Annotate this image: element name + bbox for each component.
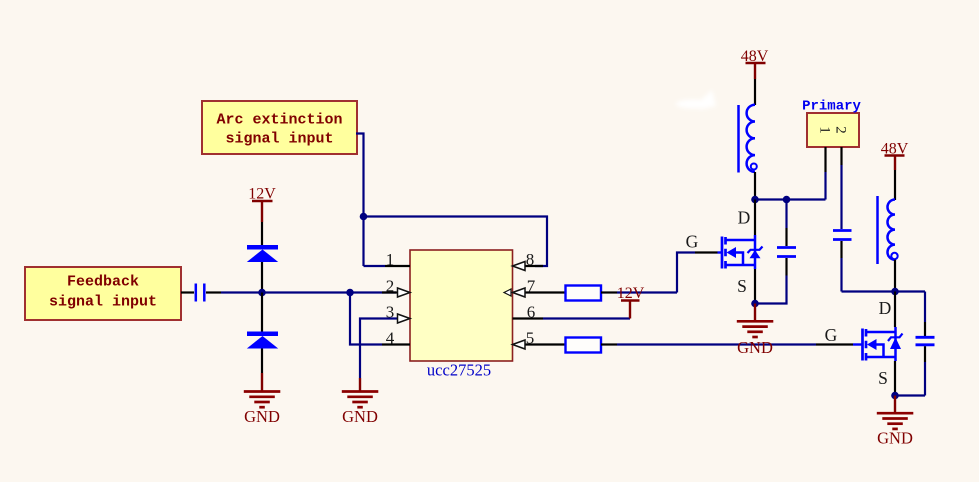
resistor R2 (566, 338, 602, 353)
12V power symbol 1 (248, 186, 276, 223)
wire Q2 drain rail (894, 292, 896, 328)
ground GND4 (Q2 source) (877, 396, 914, 448)
svg-text:3: 3 (386, 303, 395, 322)
wire pin2 node down to pin 4 (350, 293, 382, 345)
pin 1 of Primary (824, 147, 826, 172)
junction dot pin2 node (346, 289, 354, 297)
pin 5 stub (525, 343, 566, 345)
wire gate lead Q2 (816, 343, 853, 345)
junction dot source node Q1 (751, 300, 759, 308)
svg-text:GND: GND (737, 338, 773, 357)
junction dot source node Q2 (891, 392, 899, 400)
wire 48V to transformer T1 (754, 79, 756, 105)
wire gate lead Q1 (695, 251, 718, 253)
svg-text:1: 1 (817, 126, 833, 134)
wire 12V to diode D1 (261, 222, 263, 246)
capacitor C2 (on Primary pin 2) (833, 165, 852, 292)
pin 7 stub (525, 291, 566, 293)
svg-text:Arc extinction: Arc extinction (216, 112, 342, 129)
white smudge artifact (676, 90, 716, 109)
svg-text:6: 6 (527, 303, 536, 322)
op-amp U1 ucc27525 body (410, 250, 513, 380)
48V power symbol 1 (741, 48, 769, 79)
wire R2 to Q2 gate (long) (601, 343, 617, 345)
wire D2 to GND1 (261, 349, 263, 374)
Feedback signal input box (25, 267, 181, 320)
diode D1 (clamp to 12V) (247, 245, 278, 262)
wire drain row 2 (842, 290, 926, 292)
svg-text:signal input: signal input (225, 131, 333, 148)
svg-text:8: 8 (526, 250, 535, 269)
ground GND2 (342, 378, 379, 426)
svg-text:S: S (878, 368, 888, 388)
wire D1 to node (261, 262, 263, 293)
svg-text:1: 1 (386, 250, 395, 269)
pin 6 stub (513, 317, 544, 319)
svg-text:Feedback: Feedback (67, 274, 139, 291)
capacitor C-in left pin (181, 291, 194, 293)
wire Q1 source rail (754, 269, 756, 304)
wire stub into pin 1 (364, 265, 386, 267)
capacitor C1 (snubber Q1) (755, 200, 796, 304)
wire R1 to gate riser (601, 291, 617, 293)
pin 3 stub (398, 314, 411, 323)
Primary connector box (802, 99, 861, 148)
svg-text:ucc27525: ucc27525 (427, 361, 491, 380)
wire from arc box to node A and down to pin 1 (356, 134, 364, 267)
transistor Q2 MOSFET (863, 327, 903, 361)
wire T1 to drain node (754, 172, 756, 200)
pin 2 stub (382, 291, 398, 293)
node A junction dot (360, 213, 368, 221)
Arc extinction signal input box (202, 101, 357, 154)
transformer T1 winding (739, 105, 757, 173)
svg-text:signal input: signal input (49, 294, 157, 311)
wire pin 3 to GND2 (360, 319, 398, 379)
svg-text:Primary: Primary (802, 99, 861, 115)
capacitor C-in plates (195, 284, 198, 302)
resistor R1 (566, 286, 602, 301)
svg-text:D: D (879, 298, 892, 318)
svg-text:S: S (737, 276, 747, 296)
wire Q2 source rail (894, 361, 896, 396)
wire feedback line (main horizontal to pin 2) (221, 291, 396, 293)
svg-text:GND: GND (244, 407, 280, 426)
wire drain row 1 (755, 198, 826, 200)
svg-text:D: D (738, 208, 751, 228)
capacitor C3 (snubber Q2) (916, 292, 935, 396)
svg-text:2: 2 (386, 277, 395, 296)
48V power symbol 2 (881, 141, 909, 171)
pin 2 of Primary (840, 147, 842, 165)
transformer T2 winding (878, 196, 898, 264)
node junction dot at diodes (258, 289, 266, 297)
svg-text:2: 2 (833, 126, 849, 134)
wire source row 2 (895, 394, 925, 396)
pin 1 stub (385, 265, 410, 267)
svg-text:4: 4 (386, 329, 395, 348)
svg-text:G: G (686, 232, 699, 252)
svg-text:5: 5 (526, 329, 535, 348)
wire pin 6 to 12V (543, 317, 630, 319)
capacitor C-in right pin (206, 291, 221, 293)
wire 48V to transformer T2 (894, 170, 896, 200)
svg-text:G: G (825, 325, 838, 345)
diode D2 (clamp to GND) (247, 332, 278, 349)
junction dot drain node Q2 (891, 288, 899, 296)
svg-text:7: 7 (527, 277, 536, 296)
junction dot cap C1 top (783, 196, 791, 204)
wire Q1 drain rail (754, 200, 756, 236)
svg-text:12V: 12V (617, 285, 645, 302)
wire gate riser Q1 (677, 253, 695, 293)
pin 8 stub (525, 265, 543, 267)
ground GND1 (244, 373, 280, 426)
wire T2 to drain node 2 (894, 260, 896, 292)
junction dot drain node Q1 (751, 196, 759, 204)
ground GND3 (Q1 source) (737, 304, 774, 358)
transistor Q1 MOSFET (722, 235, 763, 269)
12V power symbol 2 (617, 285, 645, 319)
wire node to diode D2 (261, 293, 263, 333)
wire node A to pin 8 (over the IC) (364, 217, 548, 267)
svg-text:GND: GND (877, 429, 913, 448)
svg-text:GND: GND (342, 407, 378, 426)
pin 4 stub (382, 343, 410, 345)
